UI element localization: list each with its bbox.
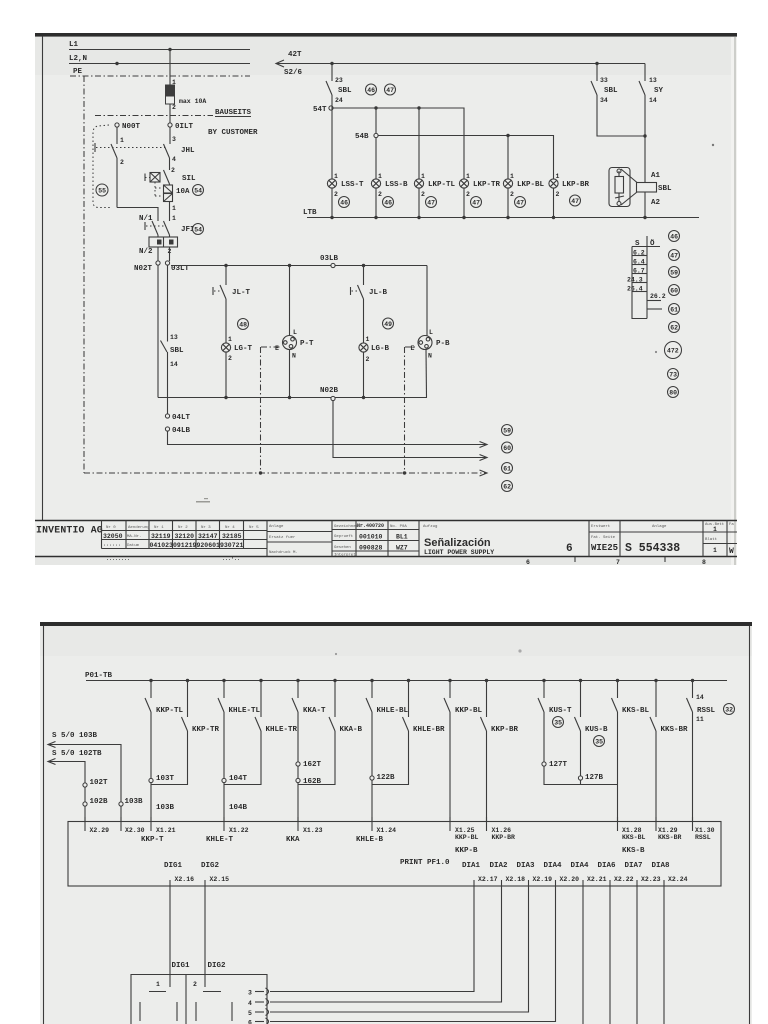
svg-text:26.2: 26.2 bbox=[650, 293, 666, 300]
svg-text:KUS-T: KUS-T bbox=[549, 707, 572, 715]
terminal 127B bbox=[578, 774, 603, 782]
svg-text:Nr 1: Nr 1 bbox=[154, 525, 164, 530]
svg-text:Aufzug: Aufzug bbox=[423, 524, 438, 529]
svg-text:60: 60 bbox=[503, 445, 511, 452]
svg-text:······: ······ bbox=[103, 543, 121, 549]
svg-text:BAUSEITS: BAUSEITS bbox=[215, 109, 252, 117]
svg-text:2: 2 bbox=[172, 104, 176, 111]
svg-text:JHL: JHL bbox=[181, 147, 195, 155]
svg-text:L1: L1 bbox=[69, 41, 79, 49]
lamp LG-T bbox=[221, 336, 252, 398]
svg-text:L: L bbox=[429, 329, 433, 336]
svg-text:2: 2 bbox=[556, 191, 560, 198]
svg-text:2: 2 bbox=[466, 191, 470, 198]
terminal 54B bbox=[355, 133, 378, 141]
switch KUS-T bbox=[538, 681, 572, 763]
svg-text:X1.23: X1.23 bbox=[303, 827, 323, 834]
wire P-T earth dash-dot bbox=[261, 346, 282, 348]
svg-text:930721: 930721 bbox=[220, 542, 244, 549]
wire X2.19 to pin 5 bbox=[270, 894, 529, 1013]
svg-text:14: 14 bbox=[170, 361, 178, 368]
terminal 162B bbox=[296, 766, 322, 786]
wire PE bbox=[70, 68, 250, 76]
wire X2.18 to pin 4 bbox=[270, 894, 502, 1003]
svg-text:34: 34 bbox=[600, 97, 608, 104]
wire S 5/0 102TB arrow bbox=[48, 750, 102, 783]
svg-text:3: 3 bbox=[248, 990, 252, 997]
svg-text:041023: 041023 bbox=[150, 542, 174, 549]
wire earth vertical P-B bbox=[404, 347, 406, 473]
svg-text:47: 47 bbox=[472, 200, 480, 207]
node earth P-B on PE run bbox=[403, 471, 406, 474]
scan speck bbox=[335, 653, 337, 655]
switch SY 13/14 bbox=[639, 64, 664, 183]
svg-text:X2.20: X2.20 bbox=[560, 876, 580, 883]
svg-text:62: 62 bbox=[503, 484, 511, 491]
svg-text:Fa: Fa bbox=[729, 523, 734, 527]
svg-text:KKP-TR: KKP-TR bbox=[192, 726, 220, 734]
drawn/checked column bbox=[332, 521, 419, 558]
wire 54T rail bbox=[333, 108, 464, 179]
node 54T-LKPTL bbox=[417, 106, 420, 109]
svg-text:46: 46 bbox=[340, 200, 348, 207]
svg-text:62: 62 bbox=[670, 325, 678, 332]
svg-text:46: 46 bbox=[367, 87, 375, 94]
anlage column bbox=[267, 521, 332, 557]
svg-text:S 554338: S 554338 bbox=[625, 542, 680, 555]
svg-text:KKS-BL: KKS-BL bbox=[622, 707, 650, 715]
svg-text:KUS-B: KUS-B bbox=[585, 726, 608, 734]
svg-text:W: W bbox=[729, 547, 734, 556]
svg-text:A1: A1 bbox=[651, 172, 661, 180]
page 1 left border bbox=[42, 36, 44, 521]
svg-text:DIA7: DIA7 bbox=[625, 862, 643, 870]
opto symbol DIG2 bbox=[196, 992, 232, 1022]
svg-text:80: 80 bbox=[669, 390, 677, 397]
svg-text:SBL: SBL bbox=[658, 185, 672, 193]
switch KKP-TL bbox=[145, 681, 184, 779]
svg-text:4: 4 bbox=[248, 1000, 252, 1007]
svg-text:P-B: P-B bbox=[436, 340, 450, 348]
svg-text:RSSL: RSSL bbox=[697, 707, 716, 715]
nodes on 03LB bus bbox=[224, 264, 365, 267]
table S/O contact chart bbox=[627, 236, 666, 319]
node L2N junction bbox=[115, 62, 118, 65]
svg-text:103B: 103B bbox=[125, 798, 144, 806]
svg-text:L2,N: L2,N bbox=[69, 55, 87, 63]
wire X2.20 to pin 6 bbox=[270, 894, 556, 1022]
svg-text:P01-TB: P01-TB bbox=[85, 672, 113, 680]
terminal 102B bbox=[83, 787, 108, 806]
svg-text:KKP-BL: KKP-BL bbox=[455, 834, 479, 841]
wire LSS-B drop bbox=[375, 108, 377, 179]
svg-text:1: 1 bbox=[713, 526, 717, 533]
svg-text:........: ........ bbox=[106, 556, 130, 562]
svg-text:MA-Nr.: MA-Nr. bbox=[127, 534, 141, 539]
svg-text:Anlage: Anlage bbox=[652, 524, 667, 529]
lamp LKP-TL bbox=[414, 173, 455, 218]
svg-text:Erstwert: Erstwert bbox=[591, 524, 610, 529]
label 46 circle LSS-B bbox=[383, 197, 394, 208]
wire LKP-BL drop bbox=[507, 136, 509, 180]
svg-text:X1.30: X1.30 bbox=[695, 827, 715, 834]
node earth P-T on PE run bbox=[259, 471, 262, 474]
relay SBL A1/A2 bbox=[609, 168, 672, 218]
svg-text:1: 1 bbox=[228, 336, 232, 343]
switch KHLE-BL bbox=[366, 681, 409, 777]
lamp LSS-B bbox=[371, 173, 408, 218]
svg-text:KKA-T: KKA-T bbox=[303, 707, 326, 715]
switch KUS-B bbox=[575, 681, 609, 777]
terminal N00T bbox=[115, 123, 141, 131]
label 47 circle LKP-TL bbox=[426, 197, 437, 208]
svg-text:DIA1: DIA1 bbox=[462, 862, 481, 870]
label 35 circle KUS-B bbox=[594, 736, 605, 747]
sheet index right columns bbox=[703, 521, 737, 557]
switch KHLE-BR bbox=[372, 681, 445, 785]
svg-text:54T: 54T bbox=[313, 106, 327, 114]
svg-text:KKS-BL: KKS-BL bbox=[622, 834, 646, 841]
terminal 127T bbox=[542, 761, 568, 769]
print board PF1.0 box bbox=[68, 822, 721, 887]
wire X2.22 down bbox=[609, 894, 611, 1024]
svg-text:KKS-BR: KKS-BR bbox=[661, 726, 689, 734]
wire LSS-T drop bbox=[331, 106, 333, 179]
wire 42T with arrow bbox=[276, 51, 645, 77]
wire P-B earth dash-dot bbox=[405, 346, 418, 348]
switch SBL 13/14 on 03LT line bbox=[161, 265, 185, 414]
svg-text:KHLE-B: KHLE-B bbox=[356, 836, 384, 844]
svg-text:S2/6: S2/6 bbox=[284, 69, 303, 77]
svg-text:L: L bbox=[293, 329, 297, 336]
wire earth vertical P-T bbox=[260, 347, 262, 473]
switch JFI pole L bbox=[164, 221, 195, 235]
page 2 sheet background bbox=[40, 622, 752, 1024]
bus LTB bbox=[303, 209, 699, 218]
svg-text:INVENTIO AG: INVENTIO AG bbox=[36, 525, 103, 536]
scan speck bbox=[712, 144, 714, 146]
svg-text:10A: 10A bbox=[176, 188, 190, 196]
wire LKP-TL drop bbox=[418, 108, 420, 179]
switch KHLE-TR bbox=[224, 681, 298, 785]
svg-text:6: 6 bbox=[566, 543, 573, 555]
wire X2.21 down bbox=[582, 894, 584, 1024]
svg-text:32147: 32147 bbox=[198, 533, 218, 540]
svg-text:127B: 127B bbox=[585, 774, 604, 782]
svg-text:X2.30: X2.30 bbox=[125, 827, 145, 834]
svg-text:Nr 4: Nr 4 bbox=[225, 525, 235, 530]
svg-text:LKP-BL: LKP-BL bbox=[517, 181, 545, 189]
terminal 122B bbox=[370, 774, 395, 782]
label 46 circle top bbox=[366, 84, 377, 95]
svg-text:0ILT: 0ILT bbox=[175, 123, 194, 131]
svg-text:47: 47 bbox=[571, 198, 579, 205]
svg-text:1: 1 bbox=[510, 173, 514, 180]
svg-text:1: 1 bbox=[172, 215, 176, 222]
svg-text:103T: 103T bbox=[156, 775, 175, 783]
wire dashed bypass loop from N00T bbox=[93, 125, 112, 208]
svg-text:47: 47 bbox=[386, 87, 394, 94]
label circles column right bbox=[669, 231, 680, 242]
svg-text:KKP-BL: KKP-BL bbox=[455, 707, 483, 715]
svg-text:60: 60 bbox=[670, 288, 678, 295]
svg-text:Anlage: Anlage bbox=[269, 524, 284, 529]
label 61 circle bbox=[502, 463, 513, 474]
svg-text:8: 8 bbox=[702, 559, 706, 566]
switch SBL 33/34 bbox=[591, 64, 645, 137]
svg-text:WZ7: WZ7 bbox=[396, 545, 408, 552]
svg-text:LSS-T: LSS-T bbox=[341, 181, 364, 189]
lamp LKP-BL bbox=[503, 173, 544, 218]
svg-text:2: 2 bbox=[421, 191, 425, 198]
svg-text:X2.17: X2.17 bbox=[478, 876, 498, 883]
svg-text:Nr 3: Nr 3 bbox=[201, 525, 211, 530]
svg-text:KHLE-BL: KHLE-BL bbox=[377, 707, 409, 715]
svg-text:Señalización: Señalización bbox=[424, 537, 491, 549]
faint scan smudges page 1 bbox=[106, 498, 240, 563]
svg-text:LG-B: LG-B bbox=[371, 345, 390, 353]
svg-text:PE: PE bbox=[73, 68, 83, 76]
label 60 circle bbox=[502, 442, 513, 453]
svg-text:48: 48 bbox=[239, 322, 247, 329]
wire 54B rail bbox=[378, 136, 554, 180]
svg-text:Nr 0: Nr 0 bbox=[106, 525, 116, 530]
svg-text:P-T: P-T bbox=[300, 340, 314, 348]
terminal ticks on box bottom edge bbox=[170, 880, 664, 894]
svg-text:091219: 091219 bbox=[173, 542, 197, 549]
svg-text:59: 59 bbox=[503, 428, 511, 435]
svg-text:13: 13 bbox=[649, 77, 657, 84]
page 1 sheet background bbox=[35, 33, 737, 565]
svg-text:X2.23: X2.23 bbox=[641, 876, 661, 883]
title Senalizacion bbox=[423, 524, 573, 556]
svg-text:54: 54 bbox=[194, 188, 202, 195]
switch KKA-T bbox=[292, 681, 326, 763]
svg-text:7: 7 bbox=[616, 559, 620, 566]
svg-text:X2.19: X2.19 bbox=[533, 876, 553, 883]
svg-text:Blatt: Blatt bbox=[705, 537, 717, 542]
wire KHLE-B to X1.24 bbox=[371, 780, 373, 822]
switch SBL 23/24 bbox=[326, 64, 352, 107]
svg-text:1: 1 bbox=[713, 547, 717, 554]
svg-text:KHLE-T: KHLE-T bbox=[206, 836, 234, 844]
switch KKP-BL bbox=[444, 681, 483, 822]
title block frame bbox=[35, 521, 737, 557]
svg-text:KKP-T: KKP-T bbox=[141, 836, 164, 844]
wire N path to JFI bbox=[117, 208, 158, 222]
svg-text:KHLE-BR: KHLE-BR bbox=[413, 726, 445, 734]
node 42T-SBL33 bbox=[595, 62, 598, 65]
wire 102B to X2.29 bbox=[84, 806, 86, 822]
terminal 104T bbox=[222, 775, 248, 783]
terminal 54T bbox=[313, 106, 333, 114]
svg-text:Nachdruck M.: Nachdruck M. bbox=[269, 550, 298, 555]
svg-text:N02B: N02B bbox=[320, 387, 339, 395]
svg-text:X2.18: X2.18 bbox=[506, 876, 526, 883]
svg-text:N/2: N/2 bbox=[139, 248, 153, 256]
wire 103B to X1.21 bbox=[151, 783, 175, 822]
bus P01-TB bbox=[85, 672, 727, 681]
page 1 right edge bbox=[734, 37, 736, 565]
svg-text:Aenderung: Aenderung bbox=[128, 525, 150, 530]
svg-text:090828: 090828 bbox=[359, 545, 383, 552]
switch JL-B bbox=[351, 266, 388, 344]
svg-text:11: 11 bbox=[696, 716, 704, 723]
label 54 circle JFI bbox=[193, 224, 204, 235]
svg-text:Gesehen: Gesehen bbox=[334, 545, 351, 550]
svg-text:61: 61 bbox=[503, 466, 511, 473]
svg-text:···'··: ···'·· bbox=[222, 557, 240, 563]
svg-text:73: 73 bbox=[669, 372, 677, 379]
svg-text:DIG2: DIG2 bbox=[201, 862, 220, 870]
svg-text:2: 2 bbox=[334, 191, 338, 198]
component box DIG1 DIG2 bbox=[131, 975, 267, 1024]
svg-text:2: 2 bbox=[510, 191, 514, 198]
plug P-T bbox=[275, 266, 314, 398]
svg-text:KKA-B: KKA-B bbox=[340, 726, 363, 734]
switch KKS-BR bbox=[650, 681, 688, 822]
svg-text:104B: 104B bbox=[229, 804, 248, 812]
page 1 top black bar bbox=[35, 33, 737, 37]
node SBL34-SY junction bbox=[643, 134, 646, 137]
pin 1 DIG1 bbox=[156, 975, 170, 988]
svg-text:RSSL: RSSL bbox=[695, 834, 711, 841]
terminal labels bottom edge bbox=[175, 876, 688, 883]
svg-text:KKP-BR: KKP-BR bbox=[492, 834, 516, 841]
svg-text:SBL: SBL bbox=[604, 87, 618, 95]
arrowhead 61 bbox=[480, 455, 488, 461]
svg-text:LKP-TL: LKP-TL bbox=[428, 181, 456, 189]
arrowhead 62 bbox=[480, 470, 488, 476]
sheet number block bbox=[589, 521, 737, 557]
svg-text:E: E bbox=[275, 345, 279, 352]
svg-text:102B: 102B bbox=[90, 798, 109, 806]
svg-text:KKP-B: KKP-B bbox=[455, 847, 478, 855]
arrowhead 60 bbox=[480, 442, 488, 448]
svg-text:Geprueft: Geprueft bbox=[334, 534, 353, 539]
terminal 103B left bbox=[119, 798, 143, 806]
pin 3 bbox=[248, 988, 269, 997]
svg-text:03LB: 03LB bbox=[320, 255, 339, 263]
svg-text:S 5/0 103B: S 5/0 103B bbox=[52, 732, 98, 740]
svg-text:1: 1 bbox=[334, 173, 338, 180]
page 2 right border bbox=[749, 626, 751, 1024]
svg-text:KKS-B: KKS-B bbox=[622, 847, 645, 855]
breaker 10A bbox=[164, 184, 191, 222]
svg-text:14: 14 bbox=[649, 97, 657, 104]
svg-text:KKA: KKA bbox=[286, 836, 300, 844]
terminal 102T bbox=[83, 779, 108, 787]
svg-text:6: 6 bbox=[248, 1020, 252, 1024]
svg-text:PRINT PF1.0: PRINT PF1.0 bbox=[400, 859, 450, 867]
svg-text:X1.25: X1.25 bbox=[455, 827, 475, 834]
svg-text:49: 49 bbox=[384, 321, 392, 328]
label 32 circle RSSL bbox=[724, 704, 735, 715]
terminal 01LT bbox=[168, 123, 194, 131]
scan speck bbox=[518, 649, 521, 652]
wire X2.23 down bbox=[636, 894, 638, 1024]
wire L2,N bbox=[69, 55, 250, 64]
svg-text:JL-B: JL-B bbox=[369, 289, 388, 297]
switch RSSL bbox=[687, 681, 716, 822]
labels DIG1 DIG2 above box bbox=[172, 962, 227, 970]
svg-text:35: 35 bbox=[595, 739, 603, 746]
switch KHLE-TL bbox=[218, 681, 261, 779]
svg-text:Gezeichnet: Gezeichnet bbox=[334, 524, 358, 529]
svg-text:127T: 127T bbox=[549, 761, 568, 769]
pin 5 bbox=[248, 1009, 269, 1018]
svg-text:SBL: SBL bbox=[170, 347, 184, 355]
svg-text:47: 47 bbox=[670, 253, 678, 260]
svg-text:122B: 122B bbox=[377, 774, 396, 782]
lamp LKP-TR bbox=[459, 173, 500, 218]
terminal labels top edge bbox=[90, 827, 715, 855]
svg-text:X1.29: X1.29 bbox=[658, 827, 678, 834]
node L1 junction bbox=[168, 48, 171, 51]
svg-text:03LT: 03LT bbox=[171, 265, 190, 273]
svg-text:E: E bbox=[411, 345, 415, 352]
zone numbers below title block bbox=[526, 557, 706, 566]
switch JHL pole 3-4 bbox=[164, 127, 196, 170]
svg-text:SIL: SIL bbox=[182, 175, 196, 183]
svg-text:X2.16: X2.16 bbox=[175, 876, 195, 883]
svg-text:LG-T: LG-T bbox=[234, 345, 253, 353]
terminal 03LT bbox=[165, 261, 189, 273]
svg-text:2: 2 bbox=[171, 167, 175, 174]
page 2 top black bar bbox=[40, 622, 752, 626]
svg-text:04LB: 04LB bbox=[172, 427, 191, 435]
wire N02T down to N02B bus bbox=[157, 265, 159, 398]
svg-text:1: 1 bbox=[120, 137, 124, 144]
svg-text:102T: 102T bbox=[90, 779, 109, 787]
svg-text:LKP-TR: LKP-TR bbox=[473, 181, 501, 189]
label 59 circle bbox=[502, 425, 513, 436]
svg-text:N/1: N/1 bbox=[139, 215, 153, 223]
label 47 circle top bbox=[385, 84, 396, 95]
svg-text:47: 47 bbox=[427, 200, 435, 207]
revision table grid bbox=[102, 521, 268, 557]
svg-text:59: 59 bbox=[670, 270, 678, 277]
svg-text:61: 61 bbox=[670, 307, 678, 314]
svg-text:35: 35 bbox=[554, 720, 562, 727]
opto symbol DIG1 bbox=[140, 992, 177, 1022]
bus N02B bbox=[158, 387, 427, 401]
svg-text:5: 5 bbox=[248, 1010, 252, 1017]
svg-text:No. P0A: No. P0A bbox=[390, 525, 407, 529]
svg-text:X2.24: X2.24 bbox=[668, 876, 688, 883]
svg-text:DIA8: DIA8 bbox=[652, 862, 671, 870]
terminal 103T bbox=[149, 775, 175, 783]
svg-text:LSS-B: LSS-B bbox=[385, 181, 408, 189]
svg-text:KHLE-TR: KHLE-TR bbox=[266, 726, 298, 734]
svg-text:32119: 32119 bbox=[151, 533, 171, 540]
wire X2.15 to DIG2 bbox=[204, 894, 206, 975]
switch JL-T bbox=[213, 266, 251, 344]
labels DIG DIA row bbox=[164, 862, 670, 870]
switch SIL with solenoid bbox=[145, 167, 196, 198]
label 54 circle breaker bbox=[193, 185, 204, 196]
svg-text:472: 472 bbox=[667, 348, 679, 355]
switch JHL pole 1-2 bbox=[111, 127, 124, 208]
svg-text:SY: SY bbox=[654, 87, 664, 95]
nodes on LTB bus bbox=[330, 216, 646, 219]
svg-text:104T: 104T bbox=[229, 775, 248, 783]
svg-text:162B: 162B bbox=[303, 778, 322, 786]
nodes on P01-TB bus bbox=[149, 679, 694, 682]
svg-text:X1.26: X1.26 bbox=[492, 827, 512, 834]
node 42T-SBL23 bbox=[330, 62, 333, 65]
bus 03LB top bbox=[171, 255, 427, 268]
